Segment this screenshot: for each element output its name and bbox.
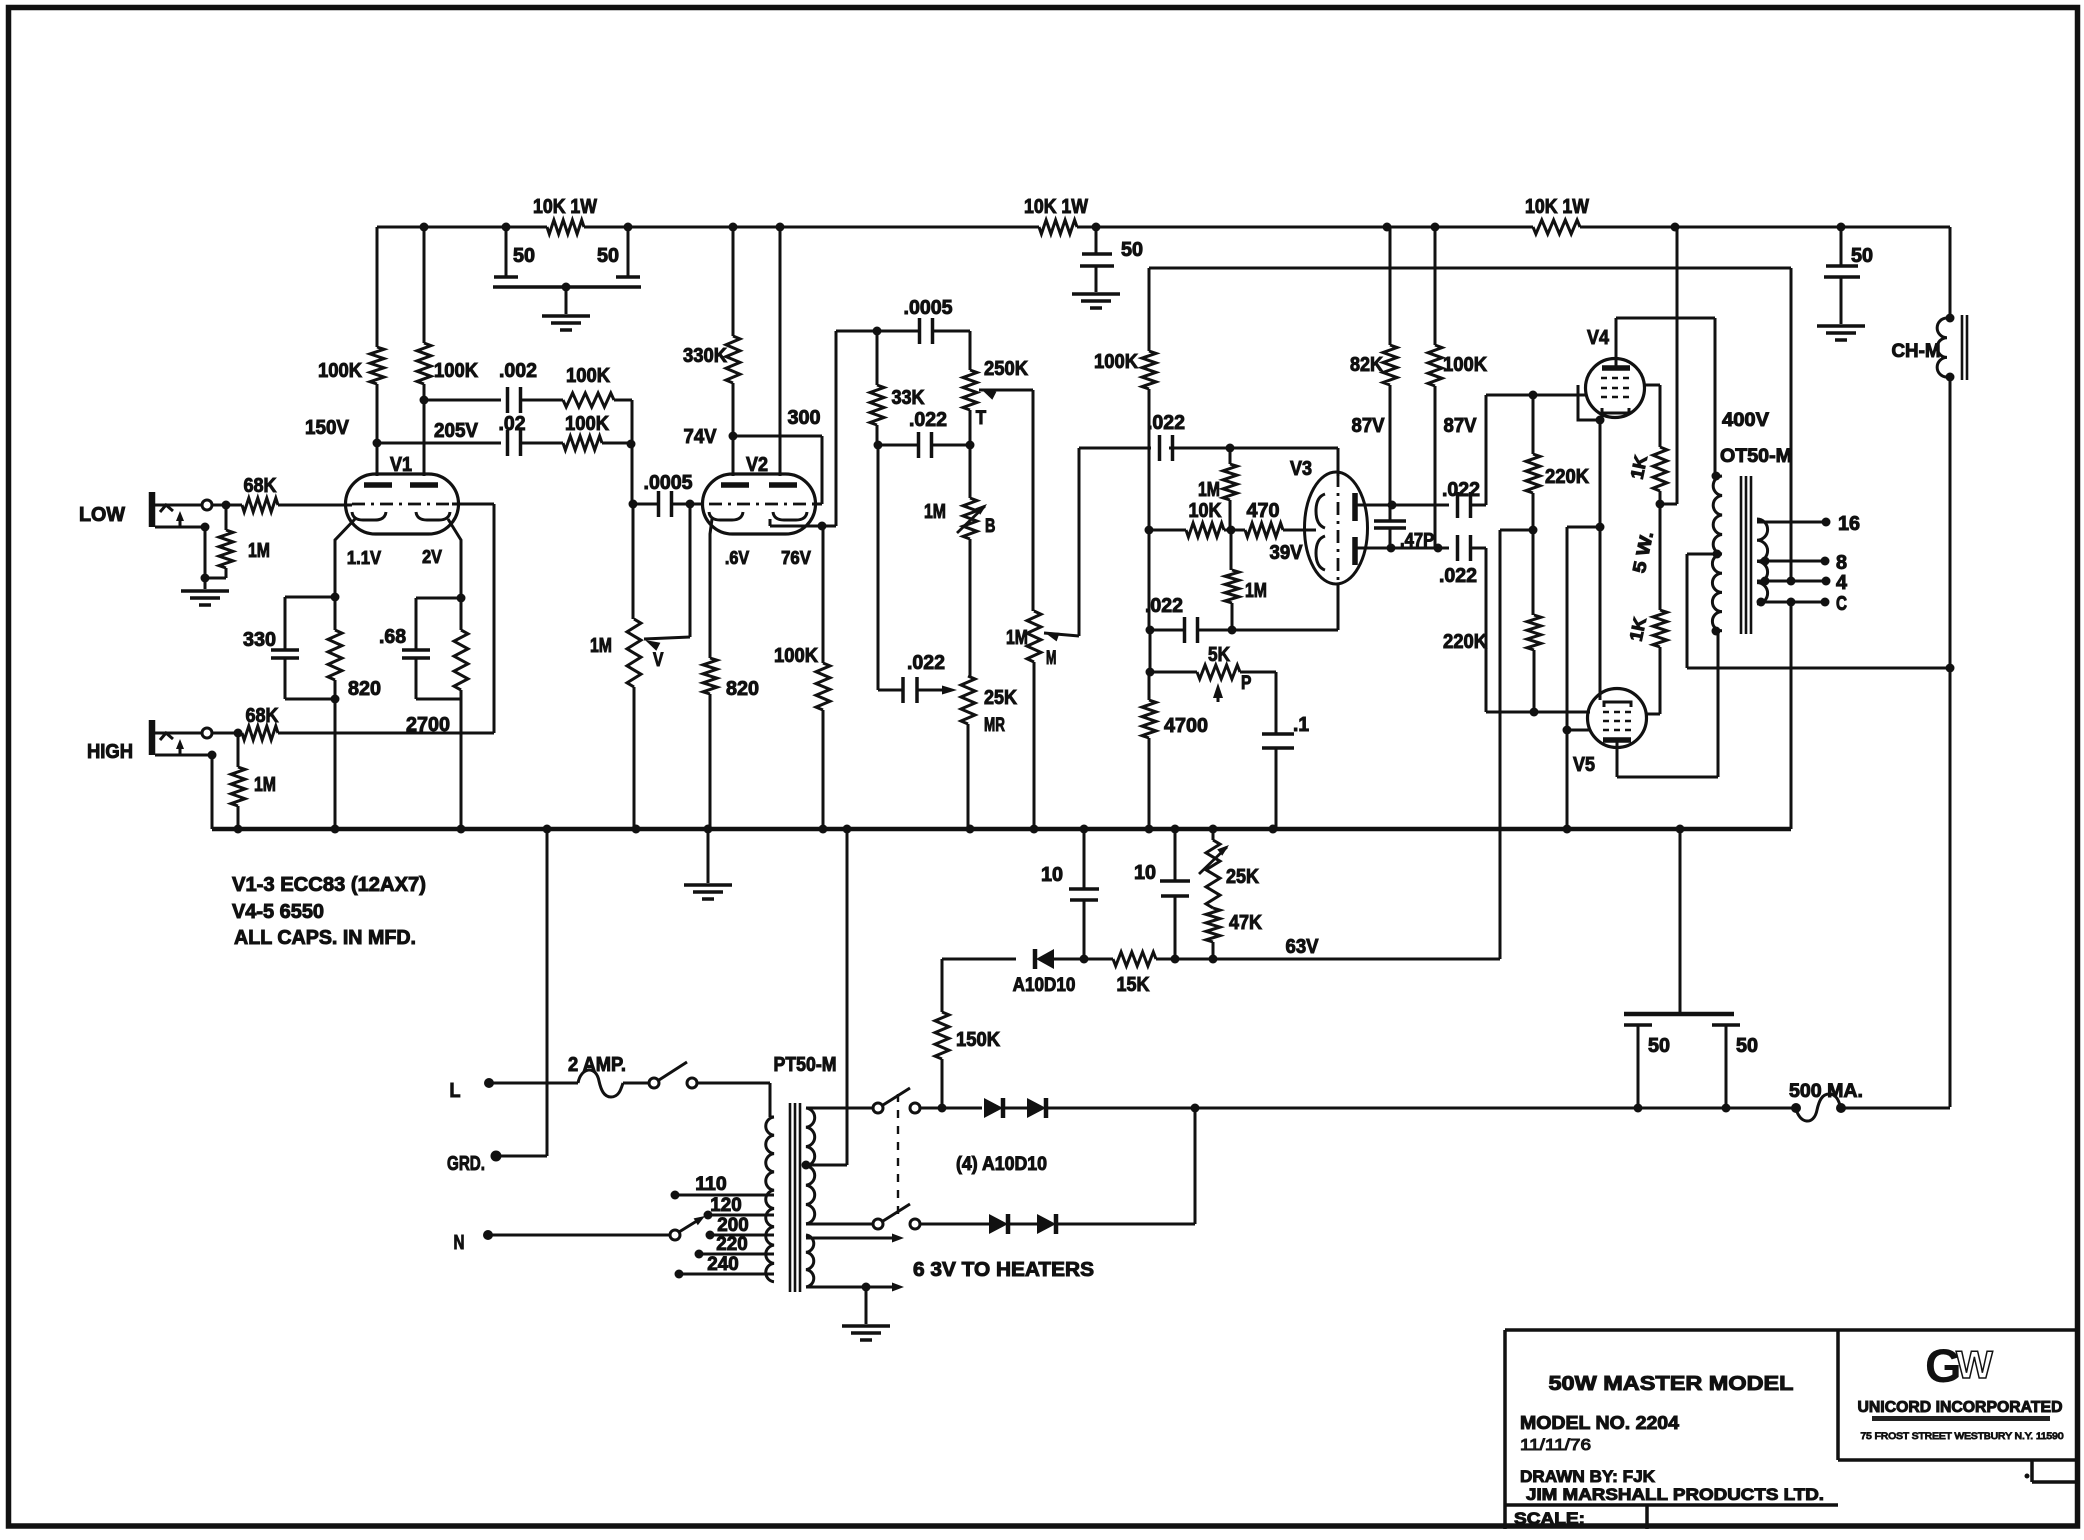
svg-text:.0005: .0005 bbox=[904, 297, 953, 319]
svg-text:.6V: .6V bbox=[725, 548, 749, 568]
svg-text:74V: 74V bbox=[684, 426, 718, 448]
resistor 68K (LOW grid stopper) bbox=[226, 475, 278, 512]
svg-text:1M: 1M bbox=[254, 774, 276, 796]
svg-text:10K: 10K bbox=[1189, 500, 1222, 522]
svg-text:P: P bbox=[1241, 673, 1252, 694]
svg-text:4700: 4700 bbox=[1164, 715, 1208, 737]
wire master wiper bbox=[1044, 448, 1079, 641]
node PI tail junction bbox=[1145, 526, 1154, 535]
svg-text:.002: .002 bbox=[499, 360, 537, 382]
svg-text:.68: .68 bbox=[379, 626, 406, 648]
wire to V5 grid bbox=[1486, 548, 1590, 717]
wire GRD bbox=[496, 1155, 547, 1158]
resistor 10K 1W (first filter) bbox=[533, 196, 597, 234]
svg-text:1M: 1M bbox=[590, 635, 612, 657]
svg-text:V4-5 6550: V4-5 6550 bbox=[232, 901, 324, 923]
svg-text:N: N bbox=[454, 1232, 465, 1254]
resistor 10K (PI tail) bbox=[1149, 500, 1231, 537]
svg-text:UNICORD INCORPORATED: UNICORD INCORPORATED bbox=[1858, 1399, 2063, 1416]
capacitor .002 bbox=[499, 360, 537, 413]
svg-text:A10D10: A10D10 bbox=[1013, 975, 1076, 996]
svg-text:.022: .022 bbox=[909, 409, 947, 431]
wire V4 plate to OT bbox=[1616, 318, 1715, 476]
svg-text:V4: V4 bbox=[1587, 327, 1610, 349]
fuse 500 MA bbox=[1789, 1081, 1863, 1121]
wire lower diode branch bbox=[1056, 1108, 1195, 1224]
svg-text:100K: 100K bbox=[1094, 351, 1139, 373]
wire V5 plate to OT bbox=[1617, 631, 1718, 777]
wire rail to choke bbox=[1949, 227, 1952, 318]
capacitor 10 (bias filter B) bbox=[1134, 829, 1190, 959]
svg-text:50: 50 bbox=[1851, 245, 1873, 267]
wire 4 ohm tap bbox=[1757, 572, 1848, 594]
ground heater center bbox=[842, 1324, 890, 1328]
svg-text:200: 200 bbox=[717, 1215, 748, 1236]
ground below third 50 cap bbox=[1817, 326, 1865, 340]
svg-text:CH-M: CH-M bbox=[1892, 341, 1941, 362]
capacitor 50 (HT filter B) bbox=[1712, 1025, 1758, 1107]
node V2 grid junction bbox=[686, 500, 705, 509]
wire LOW to V1 grid bbox=[278, 504, 352, 507]
potentiometer 5K presence bbox=[1150, 644, 1276, 702]
svg-text:1M: 1M bbox=[924, 501, 946, 523]
tube V4 6550 bbox=[1578, 327, 1645, 420]
capacitor .0005 (V2 grid coupling) bbox=[629, 472, 693, 517]
svg-text:330: 330 bbox=[243, 629, 276, 651]
svg-text:220K: 220K bbox=[1545, 466, 1590, 488]
wire OT center tap feed bbox=[1687, 554, 1955, 673]
node HIGH tip junction bbox=[234, 729, 243, 738]
jack LOW input bbox=[152, 492, 226, 532]
wire common plate of 50/50 caps bbox=[493, 283, 641, 315]
wire B+ rail segment 2 bbox=[584, 226, 1039, 229]
node screen feed junction bbox=[1656, 227, 1678, 509]
resistor 1M (HIGH grid leak) bbox=[231, 733, 276, 829]
wire V2 plate A lead bbox=[732, 436, 735, 476]
wire fuse to choke riser bbox=[1841, 1107, 1950, 1110]
node bias filter B bbox=[1171, 955, 1180, 964]
wire HT line bbox=[1195, 1104, 1796, 1113]
wire V4/V5 cathodes bbox=[1563, 420, 1605, 829]
node L terminal bbox=[450, 1078, 495, 1102]
svg-text:V5: V5 bbox=[1573, 754, 1595, 776]
resistor 820 (V2 cathode) bbox=[703, 658, 759, 829]
node bias feed junction bbox=[1500, 526, 1538, 960]
potentiometer 25K MR (mid) bbox=[961, 676, 1017, 829]
resistor 1K (V5 screen) 5W bbox=[1626, 504, 1667, 714]
wire to 100K mixer B bbox=[521, 442, 563, 445]
wire gang dashes bbox=[897, 1094, 899, 1216]
capacitor .022 (bass/mid) bbox=[878, 409, 970, 458]
wire V3 plate B bbox=[1355, 544, 1449, 553]
svg-text:V2: V2 bbox=[746, 454, 768, 476]
svg-text:63V: 63V bbox=[1286, 936, 1320, 958]
svg-text:150K: 150K bbox=[956, 1029, 1001, 1051]
node 10K/470 junction bbox=[1227, 526, 1236, 535]
wire 220 tap bbox=[695, 1234, 775, 1259]
title block frame bbox=[1505, 1330, 2078, 1529]
resistor 100K (feedback) bbox=[1094, 268, 1156, 530]
diode rectifier D3 bbox=[1037, 1214, 1056, 1234]
svg-text:87V: 87V bbox=[1444, 415, 1478, 437]
ground LOW jack bbox=[181, 589, 229, 593]
transformer PT HV secondary bbox=[802, 1108, 815, 1224]
svg-text:2 AMP.: 2 AMP. bbox=[568, 1054, 626, 1076]
svg-text:1M: 1M bbox=[1245, 580, 1267, 602]
wire mixer row .02 bbox=[377, 442, 501, 445]
wire V1 cathode B top bbox=[416, 594, 466, 603]
wire V1 cathode A bottom bbox=[285, 695, 340, 830]
svg-text:76V: 76V bbox=[781, 548, 811, 568]
svg-text:100K: 100K bbox=[434, 360, 479, 382]
svg-text:(4) A10D10: (4) A10D10 bbox=[956, 1154, 1047, 1175]
wire V2 grid B jog (300) bbox=[733, 407, 822, 504]
wire to 150K junction bbox=[920, 1107, 982, 1110]
diode A10D10 (bias rectifier) bbox=[942, 949, 1084, 996]
capacitor .1 (presence) bbox=[1262, 672, 1309, 829]
resistor 15K (bias) bbox=[1084, 952, 1175, 996]
diode rectifier D1 bbox=[984, 1098, 1003, 1118]
switch HT primary pole bbox=[873, 1088, 920, 1113]
capacitor 50 (first filter, left) bbox=[494, 227, 535, 277]
wire C common tap bbox=[1757, 593, 1848, 615]
resistor 100K (mixer A) bbox=[563, 365, 614, 407]
svg-text:33K: 33K bbox=[892, 387, 925, 409]
transformer OT core bbox=[1741, 476, 1751, 634]
svg-text:.022: .022 bbox=[1442, 479, 1480, 501]
wire mixer B output bbox=[602, 442, 632, 445]
resistor 47K (bias) bbox=[1206, 908, 1262, 959]
svg-text:150V: 150V bbox=[305, 417, 350, 439]
svg-text:.022: .022 bbox=[907, 652, 945, 674]
svg-text:820: 820 bbox=[348, 678, 381, 700]
node bias filter A bbox=[1080, 955, 1089, 964]
wire riser to tone stack bbox=[836, 331, 877, 526]
node 205V bbox=[420, 396, 479, 443]
wire PI lower coupling row bbox=[1146, 530, 1185, 635]
resistor 82K (PI plate A) bbox=[1350, 227, 1397, 505]
svg-text:C: C bbox=[1836, 593, 1847, 615]
wire switch to PT bbox=[697, 1083, 770, 1117]
svg-text:10: 10 bbox=[1134, 862, 1156, 884]
wire 110 tap bbox=[671, 1174, 775, 1200]
wire V1 cathode B bottom bbox=[416, 699, 461, 829]
wire D1-D2 bbox=[1003, 1107, 1027, 1110]
svg-text:2V: 2V bbox=[422, 547, 442, 567]
resistor 100K (V1 plate load A) bbox=[318, 227, 384, 443]
svg-text:.02: .02 bbox=[499, 413, 526, 435]
svg-text:87V: 87V bbox=[1352, 415, 1386, 437]
svg-text:220K: 220K bbox=[1443, 631, 1488, 653]
ground main bus bbox=[684, 829, 732, 899]
logo GW Unicord bbox=[1858, 1339, 2064, 1441]
svg-text:820: 820 bbox=[726, 678, 759, 700]
svg-text:1M: 1M bbox=[1198, 479, 1220, 501]
wire NFB drop to presence bbox=[1146, 630, 1155, 677]
svg-text:47K: 47K bbox=[1229, 912, 1262, 934]
svg-text:240: 240 bbox=[707, 1254, 738, 1275]
diode rectifier D4 bbox=[989, 1214, 1008, 1234]
jack HIGH input bbox=[152, 720, 238, 829]
svg-text:100K: 100K bbox=[566, 365, 611, 387]
svg-text:5K: 5K bbox=[1208, 644, 1230, 666]
capacitor 10 (bias filter A) bbox=[1041, 829, 1099, 959]
wire to V4 grid bbox=[1486, 391, 1586, 506]
resistor 1M (PI grid A) bbox=[1198, 448, 1237, 530]
svg-text:DRAWN BY: FJK: DRAWN BY: FJK bbox=[1520, 1467, 1656, 1486]
potentiometer 25K (bias adjust) bbox=[1199, 829, 1259, 908]
svg-text:.47P: .47P bbox=[1400, 530, 1434, 550]
resistor 10K 1W (third filter) bbox=[1525, 196, 1589, 234]
resistor 4700 (PI tail bottom) bbox=[1142, 672, 1208, 829]
svg-text:T: T bbox=[976, 408, 987, 429]
svg-text:8: 8 bbox=[1836, 552, 1847, 574]
svg-text:.022: .022 bbox=[1147, 412, 1185, 434]
resistor 220K (V4 grid leak) bbox=[1526, 395, 1590, 530]
diode rectifier D2 bbox=[1027, 1098, 1046, 1118]
resistor 150K (bias feed) bbox=[935, 959, 1001, 1113]
node 74V bbox=[684, 426, 738, 448]
potentiometer 1M V (volume) bbox=[590, 504, 664, 829]
wire HV bottom to rectifier bbox=[806, 1223, 873, 1226]
resistor 820 (V1 cathode A) bbox=[328, 597, 381, 700]
node tone stack input bbox=[873, 327, 882, 336]
potentiometer 250K treble bbox=[963, 331, 1029, 445]
svg-text:V1: V1 bbox=[390, 454, 412, 476]
resistor 100K (cathode follower load) bbox=[774, 526, 830, 829]
svg-text:110: 110 bbox=[695, 1174, 726, 1195]
wire .022 to V3 grid B bbox=[1197, 583, 1338, 635]
svg-text:1M: 1M bbox=[1006, 627, 1028, 649]
svg-text:68K: 68K bbox=[246, 705, 279, 727]
wire V2 cathode output bbox=[770, 522, 836, 531]
capacitor .022 (V3 grid B) bbox=[1145, 595, 1198, 643]
wire B+ rail segment 4 bbox=[1580, 226, 1950, 229]
svg-text:205V: 205V bbox=[434, 420, 479, 442]
tube V3 ECC83 phase inverter bbox=[1290, 458, 1368, 584]
svg-text:500 MA.: 500 MA. bbox=[1789, 1081, 1863, 1102]
wire 120 tap bbox=[704, 1195, 775, 1220]
note tube types bbox=[232, 874, 426, 949]
fuse 2 AMP bbox=[568, 1054, 626, 1097]
title text bbox=[1514, 1373, 1824, 1528]
capacitor 50 (second filter) bbox=[1080, 227, 1143, 292]
svg-text:2700: 2700 bbox=[406, 714, 450, 736]
capacitor .022 (PI input coupling) bbox=[1147, 412, 1185, 461]
svg-text:16: 16 bbox=[1838, 513, 1860, 535]
node V4 cathode junction bbox=[1596, 416, 1605, 425]
svg-text:68K: 68K bbox=[244, 475, 277, 497]
svg-text:300: 300 bbox=[788, 407, 821, 429]
wire D3-D4 bbox=[1008, 1223, 1037, 1226]
svg-text:15K: 15K bbox=[1117, 974, 1150, 996]
svg-text:100K: 100K bbox=[1443, 354, 1488, 376]
wire coupling to V3 grid A bbox=[1169, 448, 1338, 476]
svg-text:10K 1W: 10K 1W bbox=[1525, 196, 1589, 218]
wire V1 plate A lead bbox=[376, 443, 379, 476]
svg-text:B: B bbox=[985, 516, 995, 537]
svg-text:120: 120 bbox=[710, 1195, 741, 1216]
capacitor .0005 (treble) bbox=[877, 297, 970, 344]
wire N to selector bbox=[488, 1234, 670, 1237]
wire V2 plate B lead bbox=[779, 227, 782, 476]
svg-text:100K: 100K bbox=[318, 360, 363, 382]
wire master to coupling cap bbox=[1079, 447, 1151, 450]
wire HIGH to V1 grid B bbox=[278, 504, 494, 733]
svg-text:6 3V TO HEATERS: 6 3V TO HEATERS bbox=[913, 1259, 1094, 1281]
capacitor .022 (to V5 grid) bbox=[1439, 535, 1486, 587]
wire V1 plate B lead bbox=[423, 400, 426, 476]
resistor 33K (slope) bbox=[870, 331, 925, 445]
svg-text:50W MASTER MODEL: 50W MASTER MODEL bbox=[1549, 1373, 1794, 1395]
node LOW ground junction bbox=[201, 527, 210, 589]
svg-text:.1: .1 bbox=[1293, 714, 1309, 736]
node LOW tip junction bbox=[222, 501, 231, 510]
resistor 220K (V5 grid leak) bbox=[1443, 530, 1541, 712]
capacitor .02 bbox=[499, 413, 526, 456]
node rail junction dots bbox=[420, 223, 1846, 232]
transformer OT secondary bbox=[1757, 519, 1768, 604]
resistor 1K (V4 screen) 5W bbox=[1627, 447, 1667, 504]
wire HV center tap to bus bbox=[806, 829, 847, 1165]
wire C to ground bus bbox=[1790, 602, 1793, 829]
wire D4 to switch bbox=[920, 1223, 989, 1226]
svg-text:1M: 1M bbox=[248, 540, 270, 562]
node GRD terminal bbox=[447, 1151, 502, 1176]
wire V5 screen bbox=[1646, 713, 1660, 716]
svg-text:10: 10 bbox=[1041, 864, 1063, 886]
node 87V labels bbox=[1352, 415, 1478, 437]
svg-text:25K: 25K bbox=[1226, 866, 1259, 888]
svg-text:100K: 100K bbox=[565, 413, 610, 435]
svg-text:50: 50 bbox=[1121, 239, 1143, 261]
svg-text:470: 470 bbox=[1247, 500, 1280, 522]
transformer OT50-M primary bbox=[1712, 410, 1793, 636]
svg-text:25K: 25K bbox=[984, 687, 1017, 709]
wire NFB line bbox=[1149, 268, 1791, 581]
capacitor 330 bbox=[243, 597, 299, 699]
wire to 100K mixer A bbox=[521, 399, 563, 402]
capacitor .022 (to mid-range pot) bbox=[878, 652, 957, 703]
svg-text:GRD.: GRD. bbox=[447, 1153, 485, 1175]
svg-text:82K: 82K bbox=[1350, 354, 1383, 376]
svg-text:V: V bbox=[653, 650, 664, 671]
svg-text:400V: 400V bbox=[1722, 410, 1769, 431]
capacitor 50 (third filter) bbox=[1824, 227, 1873, 324]
svg-text:W: W bbox=[1956, 1344, 1993, 1387]
svg-text:50: 50 bbox=[597, 245, 619, 267]
ground below second 50 cap bbox=[1072, 294, 1120, 308]
switch voltage selector bbox=[670, 1216, 705, 1240]
svg-text:SCALE:: SCALE: bbox=[1514, 1509, 1585, 1528]
wire V3 plate A bbox=[1355, 501, 1449, 510]
svg-text:MR: MR bbox=[984, 715, 1005, 736]
svg-text:V3: V3 bbox=[1290, 458, 1312, 480]
wire ground bus bbox=[212, 825, 1791, 834]
svg-text:50: 50 bbox=[513, 245, 535, 267]
potentiometer 1M bass bbox=[924, 445, 995, 676]
svg-text:1.1V: 1.1V bbox=[347, 548, 381, 568]
resistor 330K (V2 plate load) bbox=[683, 227, 740, 436]
wire heater top bbox=[806, 1234, 904, 1243]
resistor 68K (HIGH grid stopper) bbox=[238, 705, 279, 740]
resistor 100K (PI plate B) bbox=[1428, 227, 1488, 548]
wire B+ rail segment 3 bbox=[1077, 226, 1533, 229]
note 5W label bbox=[1629, 530, 1657, 575]
svg-text:250K: 250K bbox=[984, 358, 1029, 380]
svg-text:75 FROST STREET WESTBURY N.Y: 75 FROST STREET WESTBURY N.Y. 11590 bbox=[1861, 1431, 2064, 1441]
capacitor .68 bbox=[379, 598, 430, 699]
wire 240 tap bbox=[675, 1254, 775, 1279]
svg-text:4: 4 bbox=[1836, 572, 1848, 594]
wire 200 tap bbox=[706, 1215, 775, 1240]
resistor 1M (PI grid B) bbox=[1225, 530, 1267, 630]
wire V4 screen bbox=[1644, 385, 1660, 447]
tube V5 6550 bbox=[1573, 689, 1647, 777]
svg-text:50: 50 bbox=[1648, 1035, 1670, 1057]
transformer PT heater winding bbox=[806, 1235, 814, 1287]
wire mixer row .002 bbox=[424, 399, 501, 402]
svg-text:OT50-M: OT50-M bbox=[1720, 446, 1792, 467]
svg-text:10K 1W: 10K 1W bbox=[533, 196, 597, 218]
wire HV top to rectifier bbox=[806, 1107, 873, 1110]
resistor 10K 1W (second filter) bbox=[1024, 196, 1088, 234]
potentiometer 1M M (volume/master) bbox=[1006, 611, 1056, 829]
transformer PT primary bbox=[766, 1117, 774, 1282]
wire V1 cathode A top bbox=[285, 593, 340, 602]
node tone output junction bbox=[966, 441, 975, 450]
svg-text:330K: 330K bbox=[683, 345, 728, 367]
wire choke to HT bbox=[1949, 377, 1952, 1107]
node PI grid A junction bbox=[1226, 444, 1235, 453]
switch HT secondary pole bbox=[873, 1204, 920, 1229]
resistor 100K (V1 plate load B) bbox=[417, 227, 479, 400]
svg-text:LOW: LOW bbox=[79, 504, 125, 526]
node slope junction bbox=[874, 441, 883, 450]
wire heater bottom bbox=[806, 1283, 904, 1325]
svg-text:L: L bbox=[450, 1080, 461, 1102]
svg-text:ALL CAPS. IN MFD.: ALL CAPS. IN MFD. bbox=[234, 927, 416, 949]
svg-text:220: 220 bbox=[716, 1234, 747, 1255]
svg-text:V1-3 ECC83 (12AX7): V1-3 ECC83 (12AX7) bbox=[232, 874, 426, 896]
ground below 50/50 caps bbox=[542, 316, 590, 330]
svg-text:MODEL NO. 2204: MODEL NO. 2204 bbox=[1520, 1413, 1679, 1433]
svg-text:PT50-M: PT50-M bbox=[774, 1054, 837, 1076]
resistor 2700 (V1 cathode B) bbox=[406, 598, 468, 736]
switch mains bbox=[623, 1062, 697, 1088]
capacitor .47P bbox=[1374, 505, 1434, 550]
svg-text:HIGH: HIGH bbox=[87, 741, 133, 763]
wire 8 ohm tap bbox=[1757, 552, 1847, 574]
node mixer junction bbox=[627, 440, 636, 449]
wire treble wiper bbox=[979, 389, 1033, 611]
transformer PT core bbox=[790, 1103, 800, 1292]
svg-text:100K: 100K bbox=[774, 645, 819, 667]
wire bus to HT caps bbox=[1679, 829, 1682, 1014]
resistor 1M (LOW grid leak) bbox=[205, 505, 270, 578]
resistor 100K (mixer B) bbox=[563, 413, 610, 450]
choke CH-M bbox=[1892, 314, 1968, 382]
svg-text:M: M bbox=[1046, 648, 1056, 669]
capacitor 50 (HT filter A) bbox=[1624, 1014, 1734, 1107]
node N terminal bbox=[454, 1230, 494, 1254]
wire slope to MR pot bbox=[877, 445, 880, 690]
node 150V bbox=[305, 417, 382, 448]
tube V2 ECC83 bbox=[703, 454, 816, 658]
wire mixer A output bbox=[614, 400, 632, 444]
wire volume wiper bbox=[644, 504, 690, 651]
svg-text:.0005: .0005 bbox=[644, 472, 693, 494]
